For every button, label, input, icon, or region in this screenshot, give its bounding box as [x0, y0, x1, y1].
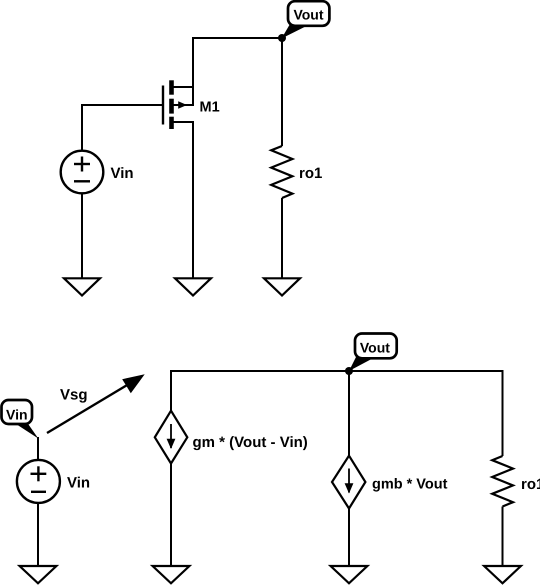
svg-text:gmb * Vout: gmb * Vout [372, 477, 448, 493]
voltage source Vin (bottom) [17, 460, 60, 503]
wire gm source to ground [170, 463, 172, 566]
voltage source Vin (top) [61, 151, 104, 194]
resistor ro1 (top) [271, 146, 292, 198]
svg-text:M1: M1 [200, 99, 220, 115]
transistor M1 [163, 80, 194, 129]
node Vout (junction dot) [278, 34, 286, 42]
ground (under ro1 bottom) [484, 566, 521, 583]
node Vout bottom (junction dot) [345, 367, 353, 375]
svg-text:Vin: Vin [6, 406, 28, 422]
wire Vin top vertical [81, 104, 83, 151]
wire Vin bottom source to ground [37, 503, 39, 566]
label Vout callout (top) [282, 1, 330, 38]
wire ro1 bottom to ground [502, 507, 504, 567]
ground (under gmb source) [331, 566, 368, 583]
wire M1 drain vertical [192, 37, 194, 106]
ground (under M1 source) [175, 278, 211, 295]
wire bus down to ro1 bottom [502, 370, 504, 456]
ground (under Vin top) [64, 278, 100, 295]
svg-text:Vin: Vin [67, 475, 90, 492]
ground (under gm source) [153, 566, 190, 583]
wire bus down to gmb source [348, 371, 350, 456]
wire bottom bus [171, 370, 503, 372]
wire Vout node down to resistor ro1 [281, 38, 283, 146]
svg-text:gm * (Vout - Vin): gm * (Vout - Vin) [193, 434, 308, 451]
wire Vin bottom to ground [81, 193, 83, 278]
svg-text:Vout: Vout [360, 339, 390, 355]
label Vin callout (bottom) [2, 400, 39, 439]
svg-text:ro1: ro1 [521, 476, 540, 493]
wire bus down to gm source [170, 370, 172, 411]
wire M1 source down to ground [192, 121, 194, 278]
label Vout callout (bottom) [349, 334, 397, 372]
svg-text:ro1: ro1 [299, 165, 322, 182]
dependent source gmb*Vout [332, 456, 365, 509]
svg-text:Vout: Vout [293, 6, 323, 22]
wire gmb source to ground [348, 508, 350, 566]
resistor ro1 (bottom) [492, 456, 513, 507]
wire resistor to ground [281, 198, 283, 278]
ground (under Vin bottom) [20, 566, 57, 583]
svg-text:Vin: Vin [111, 165, 134, 182]
dependent source gm*(Vout-Vin) [155, 411, 188, 464]
arrow Vsg [47, 374, 145, 433]
ground (under ro1 top) [264, 278, 300, 295]
wire Vin callout node down to source [37, 437, 39, 460]
svg-text:Vsg: Vsg [60, 387, 88, 404]
wire gate from Vin to M1 [82, 104, 163, 106]
wire top bus from M1 drain to Vout node [193, 37, 282, 39]
